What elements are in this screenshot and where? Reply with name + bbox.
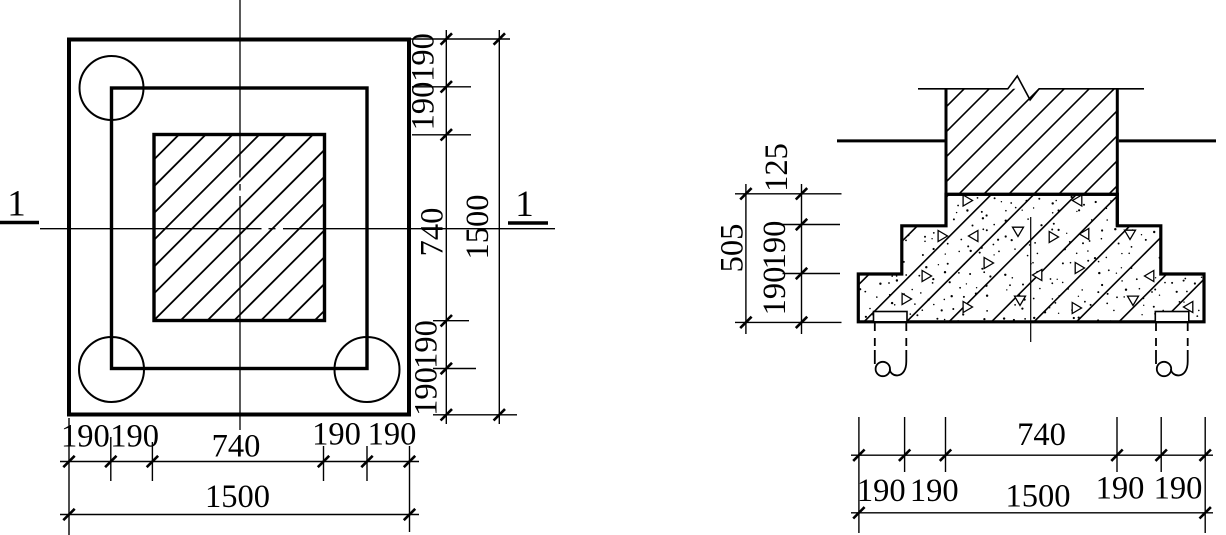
- plan: section mark 1 right: [508, 184, 548, 225]
- plan: label 1500 right: [460, 195, 496, 260]
- svg-text:190: 190: [757, 221, 793, 270]
- svg-text:1500: 1500: [1006, 478, 1071, 514]
- svg-text:1: 1: [515, 184, 534, 225]
- plan: corner circle bottom-left: [79, 337, 144, 402]
- plan: label 190 right top: [405, 33, 441, 82]
- section: label 190 bottom far-left: [857, 473, 906, 509]
- svg-text:740: 740: [212, 428, 261, 464]
- svg-text:190: 190: [61, 418, 110, 454]
- plan: label 190 bottom right: [312, 416, 361, 452]
- plan: label 190 bottom far-left: [61, 418, 110, 454]
- section: bottom dim line 1500: [851, 512, 1213, 514]
- section: concrete texture dots: [859, 196, 1202, 323]
- plan: label 190 right lower: [408, 320, 444, 369]
- svg-text:190: 190: [110, 418, 159, 454]
- section: column left edge: [945, 89, 948, 226]
- plan: bottom dim line 190/190/740/190/190: [60, 461, 419, 463]
- section: dim line 505: [745, 184, 747, 334]
- section: column right edge: [1116, 89, 1119, 226]
- svg-text:190: 190: [405, 82, 441, 131]
- section: rebar anchor left: [874, 312, 908, 322]
- section: column hatching: [823, 0, 1226, 230]
- section: bottom dim ticks: [853, 450, 1211, 461]
- section: stepped footing outline: [858, 194, 1204, 321]
- section: label 190 bottom far-right: [1154, 470, 1203, 506]
- plan: inner hatched square (column 740x740): [154, 135, 325, 321]
- plan: label 190 bottom far-right: [368, 416, 417, 452]
- svg-text:1500: 1500: [205, 479, 270, 515]
- svg-text:190: 190: [757, 267, 793, 316]
- svg-text:505: 505: [715, 224, 751, 273]
- section: ground line left: [837, 139, 945, 142]
- svg-text:190: 190: [1154, 470, 1203, 506]
- svg-text:1: 1: [7, 184, 26, 225]
- plan: horizontal centre line: [40, 228, 555, 230]
- section: label 125: [759, 143, 795, 192]
- section: rebar anchor right: [1155, 312, 1189, 322]
- section: centre line: [1030, 217, 1032, 342]
- plan: corner circle top-left: [80, 56, 144, 120]
- plan: label 1500 bottom: [205, 479, 270, 515]
- plan: right dim line 1500: [498, 30, 500, 424]
- section: ground line right: [1119, 139, 1216, 142]
- section: label 190 bottom left: [910, 473, 959, 509]
- section: label 505: [715, 224, 751, 273]
- section: inner dim ticks: [796, 188, 807, 328]
- svg-text:190: 190: [857, 473, 906, 509]
- section: bottom extension lines: [859, 417, 1205, 533]
- plan: label 190 bottom left: [110, 418, 159, 454]
- plan: right dim line 190/190/740/190/190: [445, 30, 447, 424]
- section: label 740 bottom: [1017, 417, 1066, 453]
- section: dowel bars with hooks right: [1156, 323, 1188, 376]
- svg-text:740: 740: [414, 208, 450, 257]
- section: label 190 upper: [757, 221, 793, 270]
- plan: bottom extension lines: [69, 418, 410, 535]
- plan: right extension lines: [411, 39, 517, 415]
- plan: label 190 right bottom: [408, 367, 444, 416]
- plan: column hatching: [0, 120, 515, 330]
- plan: outer square (footing 1500x1500): [69, 40, 409, 415]
- plan: label 740 bottom: [212, 428, 261, 464]
- plan: section mark 1 left: [0, 184, 39, 225]
- section: aggregate triangles: [902, 195, 1193, 314]
- section: bottom dim line 190/190/740/190/190: [851, 454, 1213, 456]
- svg-text:740: 740: [1017, 417, 1066, 453]
- plan: bottom dim ticks: [63, 456, 415, 467]
- svg-text:190: 190: [368, 416, 417, 452]
- plan: corner circle bottom-right: [335, 337, 400, 402]
- section: label 190 bottom right: [1096, 470, 1145, 506]
- section: top of footing thick line: [945, 193, 1119, 196]
- plan: label 740 right: [414, 208, 450, 257]
- plan: right dim ticks: [441, 33, 452, 420]
- section: 505 dim ticks: [740, 188, 751, 328]
- section: footing concrete hatching: [813, 180, 1226, 330]
- plan: 1500 dim ticks right: [494, 33, 505, 420]
- section: dowel bars with hooks left: [875, 323, 907, 376]
- section: label 1500 bottom: [1006, 478, 1071, 514]
- plan: middle square (step): [112, 88, 368, 369]
- svg-text:190: 190: [910, 473, 959, 509]
- plan: label 190 right upper: [405, 82, 441, 131]
- svg-text:1500: 1500: [460, 195, 496, 260]
- plan: bottom 1500 ticks: [63, 509, 415, 520]
- svg-text:190: 190: [405, 33, 441, 82]
- section: break line with zigzag: [918, 76, 1144, 100]
- section: label 190 lower: [757, 267, 793, 316]
- plan: vertical centre line: [239, 0, 241, 430]
- svg-text:125: 125: [759, 143, 795, 192]
- svg-text:190: 190: [312, 416, 361, 452]
- section: bottom 1500 ticks: [853, 507, 1211, 518]
- svg-text:190: 190: [408, 367, 444, 416]
- section: left extension lines: [735, 194, 842, 323]
- svg-text:190: 190: [408, 320, 444, 369]
- section: dim line 125/190/190: [801, 184, 803, 334]
- plan: bottom dim line 1500: [60, 514, 419, 516]
- svg-text:190: 190: [1096, 470, 1145, 506]
